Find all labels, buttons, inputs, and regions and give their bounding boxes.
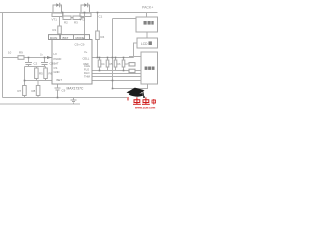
logo red tick left	[127, 97, 129, 101]
svg-text:C9: C9	[62, 89, 66, 93]
node junction dots	[24, 12, 125, 99]
node MCU box text	[145, 67, 155, 70]
svg-text:R4: R4	[101, 35, 105, 39]
wire cap C2 chain	[25, 58, 46, 98]
svg-text:DLO: DLO	[84, 71, 90, 75]
logo red char 2	[142, 97, 150, 104]
wire left vertical B+	[2, 13, 4, 98]
node IC pin labels	[54, 43, 91, 83]
svg-text:LX: LX	[54, 52, 57, 56]
resistor R0 series on mid rail	[18, 56, 24, 60]
svg-text:CS+ CS-: CS+ CS-	[75, 43, 86, 47]
ground	[71, 98, 77, 104]
node LCD box	[137, 38, 158, 48]
resistor R6	[44, 68, 48, 79]
wire R6 stubs	[45, 67, 47, 81]
wire IC pin to MCU c	[92, 76, 141, 78]
svg-text:10: 10	[8, 51, 12, 55]
capacitor C9	[55, 88, 61, 90]
svg-text:R1: R1	[53, 28, 57, 32]
wire mosfet1 to R1	[59, 17, 61, 40]
logo red char 1	[133, 97, 141, 104]
svg-text:R3: R3	[74, 21, 78, 25]
svg-text:R9: R9	[19, 51, 23, 55]
diode D2 near MCU	[129, 69, 135, 72]
resistor R7	[23, 86, 27, 96]
diode D1 near MCU	[129, 63, 135, 66]
resistor R8	[36, 86, 40, 96]
wire MCU top pin	[129, 56, 141, 58]
node pin arrow into IC	[47, 56, 52, 59]
wire drop from top rail at x=97	[97, 13, 99, 58]
op-amp U1 charger IC box	[52, 40, 92, 85]
wire rail y80 right	[92, 80, 141, 82]
node MCU box	[141, 52, 158, 84]
wire stub pack box to lcd	[146, 32, 148, 38]
svg-text:BAT: BAT	[54, 62, 59, 66]
wire R7 bottom stub	[37, 81, 39, 98]
node pack box text	[144, 21, 154, 25]
wire ground rail	[3, 97, 128, 99]
wire cap C3 chain	[44, 58, 46, 67]
svg-text:C5: C5	[109, 62, 113, 66]
wire C9 stubs	[57, 84, 59, 98]
wire mid rail right	[92, 57, 134, 59]
capacitor C5	[106, 60, 109, 67]
diode VT1 body diode	[56, 3, 60, 8]
svg-text:MODE: MODE	[76, 36, 85, 40]
wire cap bus right	[97, 58, 127, 71]
svg-text:PGND: PGND	[54, 57, 62, 61]
svg-text:R8: R8	[32, 89, 36, 93]
wire IC pin to MCU a	[92, 70, 141, 72]
wire gate chain vertical right	[84, 13, 86, 40]
logo red char small	[152, 99, 156, 105]
wire frame bottom	[0, 103, 80, 105]
svg-text:C7: C7	[125, 62, 129, 66]
resistor R2	[63, 16, 71, 20]
svg-text:CELL: CELL	[83, 57, 90, 61]
resistor R4	[96, 31, 100, 40]
wire mid rail left	[3, 57, 53, 59]
wire chain middle	[71, 17, 85, 19]
svg-text:C1: C1	[99, 15, 103, 19]
wire second rail to pack box	[113, 19, 137, 89]
svg-text:BST: BST	[63, 36, 69, 40]
svg-text:GND: GND	[54, 70, 60, 74]
svg-text:VT2: VT2	[80, 18, 86, 22]
resistor R1	[58, 26, 62, 34]
node header pin labels	[50, 36, 85, 40]
logo cap	[127, 88, 145, 98]
svg-text:www.ccw.com: www.ccw.com	[134, 106, 156, 110]
svg-text:THM: THM	[84, 75, 91, 79]
wire lcd box drop	[134, 43, 138, 58]
svg-text:VT1: VT1	[52, 18, 58, 22]
wire R5 stubs	[35, 67, 37, 81]
diode VT2 body diode	[84, 3, 88, 8]
svg-text:DCIN: DCIN	[50, 36, 57, 40]
wire rail y80 left	[25, 80, 53, 82]
svg-text:C6: C6	[117, 62, 121, 66]
svg-text:R5: R5	[39, 72, 43, 76]
svg-text:C2: C2	[34, 62, 38, 66]
svg-text:R2: R2	[64, 21, 68, 25]
svg-text:LCD: LCD	[141, 42, 148, 46]
svg-text:V+: V+	[84, 50, 88, 54]
wire IC pin to MCU b	[92, 73, 141, 75]
svg-text:PACK+: PACK+	[142, 6, 153, 10]
node header strip	[49, 35, 90, 40]
wire gate chain vertical left	[62, 13, 64, 18]
capacitor C6	[114, 60, 117, 67]
svg-text:C4: C4	[101, 62, 105, 66]
capacitor C7	[122, 60, 125, 67]
svg-text:ISET: ISET	[56, 78, 62, 82]
svg-text:CHG: CHG	[84, 64, 90, 68]
svg-text:R6: R6	[49, 72, 53, 76]
transistor VT2 body	[80, 5, 91, 17]
resistor R5	[35, 68, 39, 79]
svg-text:MAX1737C: MAX1737C	[67, 86, 84, 90]
wire top rail PACK+	[0, 12, 158, 14]
node PACK box	[136, 17, 158, 32]
wire stub pack box top	[146, 13, 148, 18]
svg-text:R7: R7	[18, 89, 22, 93]
resistor R3	[73, 16, 81, 20]
transistor VT1 body	[52, 5, 63, 17]
capacitor C2	[25, 63, 32, 65]
capacitor C4	[98, 60, 101, 67]
capacitor C3	[41, 63, 48, 65]
svg-text:FLG: FLG	[84, 68, 89, 72]
svg-text:CS: CS	[54, 66, 58, 70]
wire MCU bottom stub	[113, 84, 148, 89]
node header strip separators	[61, 35, 74, 40]
